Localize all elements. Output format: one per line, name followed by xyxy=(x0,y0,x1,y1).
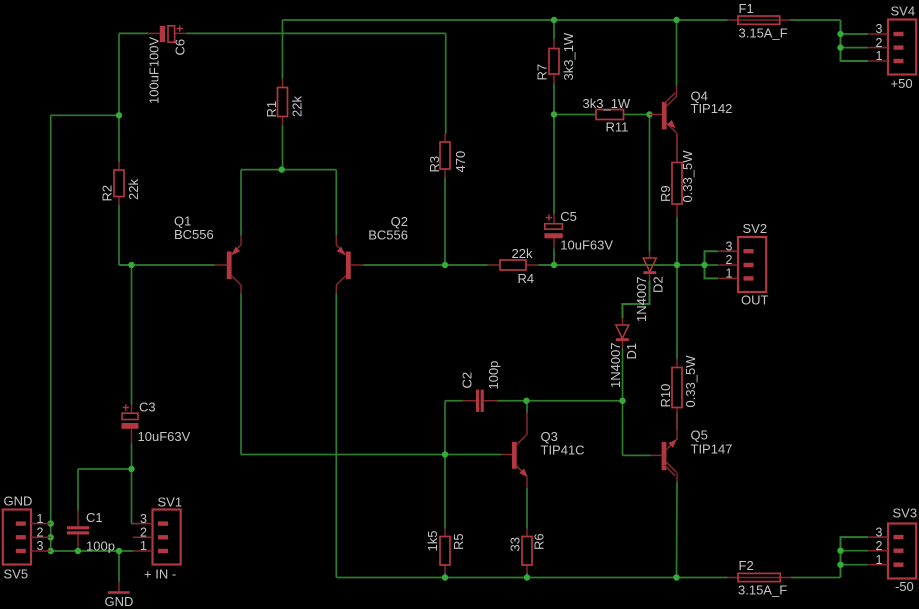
resistor R7 lead xyxy=(553,39,555,84)
wire C6 to R3 corner xyxy=(187,32,446,34)
wire Q5 base drop xyxy=(622,401,624,456)
wire out row left xyxy=(539,264,554,266)
capacitor C3 plus sign xyxy=(123,404,129,410)
resistor R3 lead xyxy=(444,134,446,178)
resistor R4 body xyxy=(500,260,526,270)
wire C2 left corner xyxy=(445,400,463,402)
svg-text:SV3: SV3 xyxy=(893,506,918,521)
wire SV2 pin2 xyxy=(705,264,719,266)
wire Q2 collector down xyxy=(335,294,337,578)
wire C6 left drop xyxy=(118,33,120,115)
wire Q5 emitter down xyxy=(676,482,679,578)
label Q1 BC556 xyxy=(174,227,214,242)
connector SV1 body xyxy=(153,510,181,565)
label 3k3_1W xyxy=(561,32,576,80)
connector SV1 pins xyxy=(133,524,153,551)
svg-text:C1: C1 xyxy=(86,510,103,525)
wire Q4 collector up xyxy=(676,20,678,86)
wire R1 bottom xyxy=(282,126,284,170)
label R3 xyxy=(427,156,442,173)
node Q4 base xyxy=(646,111,652,117)
resistor R6 body xyxy=(522,537,532,566)
svg-text:OUT: OUT xyxy=(741,293,769,308)
connector SV4 pin numbers xyxy=(876,22,883,63)
capacitor C6 leads xyxy=(148,32,187,34)
svg-text:22k: 22k xyxy=(290,96,305,117)
resistor R7 body xyxy=(549,49,559,75)
node C6-left xyxy=(116,112,122,118)
svg-text:-50: -50 xyxy=(895,579,914,594)
svg-text:10uF63V: 10uF63V xyxy=(138,429,191,444)
wire R3 bottom xyxy=(444,178,446,266)
wire R2 to base row xyxy=(118,205,120,265)
node Q3 base row xyxy=(442,451,448,457)
svg-text:22k: 22k xyxy=(126,179,141,200)
capacitor C3 leads xyxy=(131,405,133,444)
connector SV5 pin numbers xyxy=(37,512,44,553)
svg-text:BC556: BC556 xyxy=(368,228,408,243)
node rail Q5 xyxy=(673,574,679,580)
label D1 1N4007 xyxy=(608,342,623,388)
label C2 xyxy=(459,372,474,389)
connector SV4 body xyxy=(888,20,916,75)
wire C2 corner drop xyxy=(444,401,446,455)
diode D1 xyxy=(616,318,629,349)
wire SV3 bracket xyxy=(841,537,869,577)
wire Q1 collector down xyxy=(240,294,242,455)
resistor R11 body xyxy=(596,110,624,120)
label R4 xyxy=(518,271,535,286)
node C3/C1 xyxy=(128,466,134,472)
wire Q3 collector up xyxy=(526,401,528,413)
svg-text:1N4007: 1N4007 xyxy=(634,276,649,322)
transistor Q4 xyxy=(650,86,678,163)
label SV3 xyxy=(893,506,918,521)
node C2/Q3 xyxy=(523,398,529,404)
label R10 xyxy=(658,384,673,408)
svg-text:2: 2 xyxy=(37,526,44,540)
wire C1 bottom tail xyxy=(77,548,79,551)
connector SV5 pins xyxy=(31,524,51,551)
label Q4 TIP142 xyxy=(691,101,733,116)
svg-text:1: 1 xyxy=(37,512,44,526)
label R1 xyxy=(264,101,279,118)
wire gnd drop xyxy=(118,551,120,582)
svg-text:Q5: Q5 xyxy=(691,428,708,443)
label 33 xyxy=(508,537,523,551)
label 0.33_5W xyxy=(683,355,698,408)
svg-text:2: 2 xyxy=(876,36,883,50)
svg-text:F1: F1 xyxy=(739,1,754,16)
node rail R5 xyxy=(442,574,448,580)
wire R10 top xyxy=(676,265,678,359)
wire SV1 pin3 stub xyxy=(132,523,135,525)
label SV2 xyxy=(743,221,768,236)
label 22k xyxy=(290,96,305,117)
svg-text:D2: D2 xyxy=(650,276,665,293)
capacitor C1 plates xyxy=(67,526,89,534)
svg-text:33: 33 xyxy=(508,537,523,551)
wire C1 top xyxy=(77,469,79,511)
label D1 xyxy=(624,343,639,360)
label Q2 BC556 xyxy=(368,228,408,243)
wire mid row C5 to SV2 xyxy=(554,264,705,266)
svg-text:3: 3 xyxy=(726,239,733,253)
label R5 xyxy=(451,533,466,550)
wire R11 right xyxy=(623,114,650,116)
resistor R10 lead xyxy=(676,359,678,414)
resistor R5 lead xyxy=(444,529,446,574)
svg-text:3k3_1W: 3k3_1W xyxy=(583,96,631,111)
resistor R1 body xyxy=(278,88,288,117)
wire Q3 emitter down xyxy=(526,488,528,529)
capacitor C5 leads xyxy=(553,214,555,249)
connector SV2 body xyxy=(738,237,766,292)
label 0.33_5W xyxy=(680,150,695,203)
wire SV4 bracket xyxy=(841,20,869,61)
svg-text:C2: C2 xyxy=(459,372,474,389)
wire input ground row xyxy=(51,550,133,552)
capacitor C5 plus sign xyxy=(546,214,553,220)
svg-text:2: 2 xyxy=(140,526,147,540)
label Q3 xyxy=(541,429,558,444)
svg-text:BC556: BC556 xyxy=(174,227,214,242)
node SV5 pin2 xyxy=(48,534,54,540)
svg-text:3: 3 xyxy=(876,22,883,36)
wire C2 node to D1 node xyxy=(527,400,623,402)
wire C2 right xyxy=(498,400,527,402)
label D2 1N4007 xyxy=(634,276,649,322)
wire SV3 pin2 xyxy=(841,550,869,552)
node SV4 pin3 xyxy=(837,31,843,37)
wire R2 junction drop xyxy=(119,264,132,266)
svg-text:R6: R6 xyxy=(532,533,547,550)
label C1 100p xyxy=(86,539,115,554)
label -50 xyxy=(895,579,914,594)
wire emitter bus xyxy=(241,169,336,171)
connector SV3 pin numbers xyxy=(876,525,883,567)
svg-text:470: 470 xyxy=(453,151,468,173)
wire node D2 top xyxy=(649,115,651,252)
connector SV5 body xyxy=(3,510,31,565)
svg-text:GND: GND xyxy=(105,594,134,609)
svg-text:C3: C3 xyxy=(139,400,156,415)
label 1k5 xyxy=(425,531,440,552)
label R11 xyxy=(606,120,629,135)
svg-text:1: 1 xyxy=(726,267,733,281)
label C5 10uF63V xyxy=(560,238,613,253)
wire C5 bottom xyxy=(553,249,555,266)
svg-text:+50: +50 xyxy=(891,76,913,91)
wire R4 left xyxy=(445,264,488,266)
label F1 3.15A_F xyxy=(739,26,788,41)
node SV3 pin1 xyxy=(837,562,843,568)
label Q5 TIP147 xyxy=(691,442,733,457)
svg-text:R3: R3 xyxy=(427,156,442,173)
label C1 xyxy=(86,510,103,525)
label 22k R4 xyxy=(512,246,533,261)
capacitor C5 plates xyxy=(544,224,562,239)
resistor R2 lead xyxy=(118,162,120,205)
wire F2 to SV3 xyxy=(791,577,841,579)
svg-text:3.15A_F: 3.15A_F xyxy=(738,583,787,598)
wire R1 top xyxy=(282,20,284,79)
label OUT xyxy=(741,293,769,308)
diode D2 xyxy=(643,252,656,281)
transistor Q2 xyxy=(336,236,363,294)
svg-text:3: 3 xyxy=(140,512,147,526)
wire C3 bottom xyxy=(131,444,133,470)
svg-text:D1: D1 xyxy=(624,343,639,360)
svg-text:SV5: SV5 xyxy=(4,567,29,582)
wire R10 to Q5 xyxy=(676,413,678,429)
label F1 xyxy=(739,1,754,16)
resistor R11 lead xyxy=(596,114,624,116)
capacitor C6 plates xyxy=(160,26,175,42)
svg-text:+ IN -: + IN - xyxy=(144,567,176,582)
wire node A jog xyxy=(51,114,119,116)
node R7/R11 xyxy=(551,111,557,117)
wire top rail to F1 xyxy=(677,19,728,21)
label 470 xyxy=(453,151,468,173)
resistor R1 lead xyxy=(282,79,284,126)
wire C6 net left xyxy=(119,32,148,34)
svg-text:22k: 22k xyxy=(512,246,533,261)
svg-text:2: 2 xyxy=(876,539,883,553)
wire R11 left xyxy=(554,114,597,116)
label Q5 xyxy=(691,428,708,443)
node base row / C3 xyxy=(128,262,134,268)
wire Q1 base row xyxy=(119,264,215,266)
label Q2 xyxy=(391,214,408,229)
connector SV3 body xyxy=(888,524,916,579)
svg-text:R1: R1 xyxy=(264,101,279,118)
wire SV1 pin3 drop xyxy=(131,469,133,524)
transistor Q3 xyxy=(501,412,528,488)
node SV2 tap xyxy=(701,262,707,268)
capacitor C2 plates xyxy=(476,390,484,412)
svg-text:GND: GND xyxy=(4,494,33,509)
svg-text:R5: R5 xyxy=(451,533,466,550)
svg-text:TIP41C: TIP41C xyxy=(541,443,585,458)
node rail R6 xyxy=(524,574,530,580)
label D2 xyxy=(650,276,665,293)
capacitor C2 leads xyxy=(463,400,498,402)
wire Q1C to Q3 base row xyxy=(241,454,445,456)
wire R3 top drop xyxy=(445,33,447,134)
wire R5 bottom xyxy=(444,573,446,578)
resistor R10 body xyxy=(672,368,682,408)
label C6 xyxy=(173,39,188,56)
wire F1 to SV4 xyxy=(790,19,841,21)
svg-text:R9: R9 xyxy=(658,185,673,202)
label +50 xyxy=(891,76,913,91)
svg-text:2: 2 xyxy=(726,253,733,267)
node D1/Q5 xyxy=(619,398,625,404)
wire Q2 base row xyxy=(364,264,446,266)
node C1 bottom xyxy=(75,548,81,554)
connector SV2 pin numbers xyxy=(726,239,733,280)
wire SV4 pin3 xyxy=(841,33,869,35)
wire Q1 emitter up xyxy=(240,170,242,236)
connector SV3 pins xyxy=(868,537,888,565)
label + IN - xyxy=(144,567,176,582)
label SV1 xyxy=(158,495,183,510)
svg-text:TIP147: TIP147 xyxy=(691,442,733,457)
label 22k xyxy=(126,179,141,200)
node SV5 pin3 xyxy=(48,548,54,554)
label Q4 xyxy=(691,89,708,104)
wire R5 top xyxy=(444,455,446,529)
fuse F1 xyxy=(728,16,791,24)
label R6 xyxy=(532,533,547,550)
svg-text:R4: R4 xyxy=(518,271,535,286)
node SV4 pin2 xyxy=(837,44,843,50)
svg-text:1: 1 xyxy=(140,539,147,553)
svg-text:3: 3 xyxy=(37,539,44,553)
wire bottom rail xyxy=(336,577,727,579)
wire R7 top xyxy=(553,20,555,39)
svg-text:SV1: SV1 xyxy=(158,495,183,510)
label F2 3.15A_F xyxy=(738,583,787,598)
node SV3 pin2 xyxy=(837,548,843,554)
wire D2 to D1 xyxy=(623,281,650,319)
resistor R2 body xyxy=(114,170,124,197)
svg-text:SV4: SV4 xyxy=(891,4,916,19)
label R2 xyxy=(100,185,115,202)
label SV4 xyxy=(891,4,916,19)
label Q3 TIP41C xyxy=(541,443,585,458)
svg-text:100p: 100p xyxy=(486,361,501,390)
resistor R3 body xyxy=(440,142,450,169)
transistor Q1 xyxy=(215,236,242,294)
label R9 xyxy=(658,185,673,202)
wire left ground bus xyxy=(50,115,52,551)
capacitor C3 plates xyxy=(122,413,139,429)
wire Q5 base row xyxy=(623,454,651,456)
node Q4 top rail xyxy=(673,17,679,23)
label C3 10uF63V xyxy=(138,429,191,444)
svg-text:R7: R7 xyxy=(535,64,550,81)
svg-text:R2: R2 xyxy=(100,185,115,202)
node R7 top rail xyxy=(551,17,557,23)
wire Q2 emitter up xyxy=(335,170,337,236)
label C2 100p xyxy=(486,361,501,390)
svg-text:C5: C5 xyxy=(560,209,577,224)
transistor Q5 xyxy=(651,413,678,482)
wire R7 bottom xyxy=(553,84,555,115)
node emitter bus xyxy=(279,166,285,172)
node SV5 pin1 xyxy=(48,520,54,526)
wire top rail xyxy=(283,19,677,21)
label Q1 xyxy=(174,214,191,229)
label GND bottom xyxy=(105,594,134,609)
wire C3 to C1 jog xyxy=(78,468,132,470)
svg-text:1: 1 xyxy=(876,553,883,567)
wire R4 right xyxy=(539,264,555,266)
wire R9 bottom xyxy=(676,218,678,266)
wire SV2 bracket xyxy=(705,251,719,278)
label GND top xyxy=(4,494,33,509)
resistor R4 lead xyxy=(488,264,539,266)
svg-text:1k5: 1k5 xyxy=(425,531,440,552)
svg-text:1: 1 xyxy=(876,49,883,63)
wire R6 bottom xyxy=(526,573,528,578)
connector SV4 pins xyxy=(868,34,888,61)
connector SV1 pin numbers xyxy=(140,512,147,553)
wire Q3 base row xyxy=(445,454,501,456)
label 100uF100V xyxy=(146,36,161,104)
wire to R2 xyxy=(118,115,120,162)
wire R7 node to C5 xyxy=(553,115,555,215)
capacitor C1 leads xyxy=(77,511,79,549)
wire D1 to node xyxy=(622,349,624,401)
svg-text:0.33_5W: 0.33_5W xyxy=(680,150,695,203)
ground xyxy=(108,582,130,594)
resistor R9 lead xyxy=(676,134,678,218)
wire C3 top xyxy=(131,265,133,405)
svg-text:3.15A_F: 3.15A_F xyxy=(739,26,788,41)
resistor R9 body xyxy=(672,163,682,205)
label 3k3_1W R11 xyxy=(583,96,631,111)
svg-text:3k3_1W: 3k3_1W xyxy=(561,32,576,80)
svg-text:R11: R11 xyxy=(606,120,629,135)
svg-text:100uF100V: 100uF100V xyxy=(146,36,161,104)
wire SV3 pin1 xyxy=(841,564,869,566)
label fix xyxy=(0,0,1,1)
label SV5 xyxy=(4,567,29,582)
label C5 xyxy=(560,209,577,224)
svg-text:3: 3 xyxy=(876,525,883,539)
label R7 xyxy=(535,64,550,81)
svg-text:R10: R10 xyxy=(658,384,673,408)
connector SV2 pins xyxy=(718,251,738,278)
label C3 xyxy=(139,400,156,415)
node C5/R4 xyxy=(551,262,557,268)
node out R9/R10 xyxy=(674,262,680,268)
resistor R5 body xyxy=(440,537,450,566)
svg-text:0.33_5W: 0.33_5W xyxy=(683,355,698,408)
svg-text:C6: C6 xyxy=(173,39,188,56)
capacitor C6 plus sign xyxy=(177,25,184,31)
svg-text:1N4007: 1N4007 xyxy=(608,342,623,388)
svg-text:10uF63V: 10uF63V xyxy=(560,238,613,253)
svg-text:100p: 100p xyxy=(86,539,115,554)
svg-text:F2: F2 xyxy=(739,558,754,573)
wire SV4 pin2 xyxy=(841,47,869,49)
svg-text:SV2: SV2 xyxy=(743,221,768,236)
svg-text:TIP142: TIP142 xyxy=(691,101,733,116)
label F2 xyxy=(739,558,754,573)
node R3/R4/Q2 xyxy=(442,262,448,268)
node gnd tap xyxy=(116,548,122,554)
fuse F2 xyxy=(728,573,792,581)
resistor R6 lead xyxy=(526,529,528,574)
